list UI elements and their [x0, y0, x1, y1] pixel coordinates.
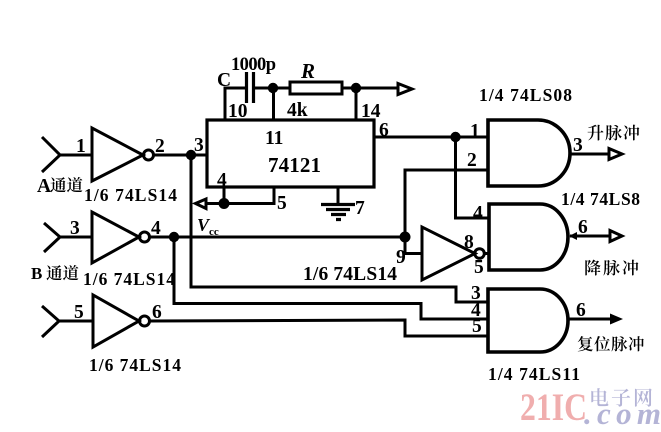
wire node to pin 11 — [272, 88, 275, 120]
pin 4 stub — [223, 187, 226, 203]
svg-text:6: 6 — [578, 217, 588, 238]
inverter U4 triangle — [422, 227, 475, 280]
wire U1 out to 74121 pin3 — [154, 154, 208, 157]
arrow gate2 output — [610, 231, 622, 242]
svg-text:1: 1 — [470, 121, 480, 142]
arrow right (Vcc supply) — [398, 84, 412, 95]
svg-text:C: C — [217, 70, 231, 91]
wire B input — [60, 236, 92, 239]
arrow gate3 output (solid) — [610, 314, 623, 325]
node B (junction) — [169, 232, 179, 242]
arrow gate1 output — [609, 149, 622, 160]
wire capacitor to resistor — [254, 87, 291, 90]
wire node B to gate3 pin4 — [174, 237, 488, 319]
inverter U3 bubble — [140, 316, 150, 326]
inverter U2 triangle — [92, 212, 139, 263]
wire node to gate1 pin2 — [405, 170, 488, 237]
svg-text:6: 6 — [379, 120, 389, 141]
inverter U2 bubble — [140, 232, 150, 242]
svg-text:4: 4 — [217, 170, 227, 191]
svg-text:5: 5 — [74, 302, 84, 323]
node C-R junction — [268, 83, 278, 93]
label up-pulse — [588, 125, 640, 141]
wire U3 out to gate3 pin5 — [150, 320, 489, 336]
svg-text:cc: cc — [209, 226, 219, 238]
IC U-74121 box — [207, 120, 374, 187]
svg-text:B: B — [31, 264, 42, 283]
svg-text:1: 1 — [76, 136, 86, 157]
inverter U4 bubble — [475, 249, 485, 259]
svg-text:6: 6 — [576, 300, 586, 321]
AND gate G2 74LS8 — [489, 204, 568, 270]
svg-text:1/6 74LS14: 1/6 74LS14 — [303, 264, 397, 285]
wire node to pin 14 — [355, 88, 358, 120]
svg-text:9: 9 — [396, 247, 406, 268]
svg-text:1/6 74LS14: 1/6 74LS14 — [84, 185, 177, 205]
node R-right junction — [351, 83, 361, 93]
svg-text:11: 11 — [265, 128, 283, 149]
wire gate1 output — [569, 153, 609, 156]
node pin4 junction — [219, 198, 230, 209]
svg-text:4k: 4k — [287, 100, 308, 121]
svg-text:5: 5 — [277, 193, 287, 214]
label reset-pulse — [578, 336, 644, 351]
svg-text:1/6 74LS14: 1/6 74LS14 — [83, 269, 175, 289]
svg-text:8: 8 — [464, 232, 474, 253]
svg-text:3: 3 — [194, 135, 204, 156]
label B channel — [31, 264, 79, 283]
label A channel — [37, 176, 83, 197]
inverter U3 triangle — [93, 295, 139, 347]
input connector A — [42, 137, 60, 172]
wire gate3 output — [569, 318, 610, 321]
arrow left (Vcc) — [196, 199, 207, 209]
svg-text:1000p: 1000p — [231, 55, 276, 75]
svg-text:A: A — [37, 176, 51, 197]
inverter U1 bubble — [144, 150, 154, 160]
label down-pulse — [585, 260, 638, 276]
wire resistor to vcc arrow — [342, 87, 398, 90]
svg-text:R: R — [300, 59, 315, 83]
pin 7 stub — [337, 187, 340, 204]
svg-text:3: 3 — [70, 218, 80, 239]
svg-text:5: 5 — [474, 257, 484, 278]
wire Q to gate2 pin4 — [456, 137, 490, 218]
svg-text:5: 5 — [472, 316, 482, 337]
inverter U1 triangle — [92, 128, 143, 181]
input connector C — [42, 306, 59, 337]
svg-text:1/6 74LS14: 1/6 74LS14 — [89, 355, 181, 375]
wire gate2 output — [570, 235, 610, 238]
wire A input — [60, 154, 92, 157]
svg-text:4: 4 — [473, 203, 483, 224]
wire U4 out to gate2 pin5 — [485, 252, 490, 255]
svg-text:21IC: 21IC — [520, 386, 587, 429]
label Vcc — [197, 215, 219, 238]
svg-text:74121: 74121 — [268, 153, 321, 177]
svg-text:1/4 74LS08: 1/4 74LS08 — [479, 85, 572, 105]
svg-text:1/4 74LS11: 1/4 74LS11 — [488, 364, 580, 384]
wire U3 input — [59, 320, 93, 323]
watermark dianziwang — [591, 388, 652, 407]
wire 74121 Q pin6 to gate1 — [374, 136, 488, 139]
ground symbol — [321, 205, 355, 220]
node U4 junction — [400, 232, 411, 243]
input connector B — [44, 223, 60, 252]
resistor R 4k — [290, 82, 342, 94]
wire U2 out long (to U4/gate1) — [150, 236, 406, 239]
wire node to U4 input — [405, 237, 422, 254]
svg-text:1/4 74LS8: 1/4 74LS8 — [561, 189, 640, 209]
wire pin10 to capacitor — [225, 88, 245, 120]
capacitor C 1000p plates — [247, 72, 254, 103]
wire pin4/pin5 tie — [207, 187, 274, 204]
node A (junction) — [186, 150, 196, 160]
wire node A to gate3 pin3 — [191, 155, 488, 302]
AND gate G3 74LS11 — [488, 289, 568, 352]
AND gate G1 74LS08 — [488, 120, 570, 186]
svg-text:2: 2 — [467, 150, 477, 171]
svg-text:7: 7 — [355, 198, 365, 219]
svg-text:3: 3 — [573, 135, 583, 156]
node Q junction — [450, 132, 460, 142]
